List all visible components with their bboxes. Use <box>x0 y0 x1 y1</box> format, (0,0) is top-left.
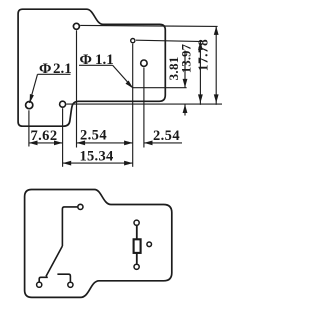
arrowhead 2.54b left <box>144 141 153 146</box>
leader underline Phi2.1 <box>38 73 71 75</box>
extension line pin junction y88 <box>133 87 187 89</box>
hole 1 (Phi2.1) <box>26 102 33 109</box>
coil terminal top <box>134 220 139 225</box>
dimension line 13.97 <box>199 41 201 105</box>
extension line hole T1 <box>76 30 78 147</box>
terminal contact 2 <box>68 282 73 287</box>
arrowhead 13.97 bottom <box>198 94 203 103</box>
leader diagonal Phi2.1 <box>30 74 38 103</box>
footprint outline (top drawing) <box>18 9 165 126</box>
contact 1 wire <box>39 277 48 281</box>
svg-text:17.78: 17.78 <box>196 39 211 71</box>
arrowhead 2.54a left <box>77 141 86 146</box>
wire common to pivot <box>62 207 77 246</box>
hole T1 (top pin) <box>73 23 79 29</box>
terminal contact 1 <box>37 282 42 287</box>
dimension line 17.78 <box>215 26 217 105</box>
arrowhead 7.62 right <box>54 141 63 146</box>
arrowhead 7.62 left <box>29 141 38 146</box>
arrowhead 2.54a right <box>124 141 133 146</box>
dimension line 7.62 <box>29 142 63 144</box>
terminal common (switch) <box>78 204 83 209</box>
coil wire top <box>136 226 138 240</box>
arrowhead 15.34 right <box>124 161 133 166</box>
extension line mid reference (hole A) <box>136 40 204 41</box>
extension line hole 2 <box>62 108 64 167</box>
extension line hole A <box>132 44 134 167</box>
dimension line 2.54 second <box>144 142 182 144</box>
dimension line 2.54 first <box>77 142 133 144</box>
coil terminal bottom <box>134 264 139 269</box>
extension line hole 1 <box>28 110 30 146</box>
svg-text:7.62: 7.62 <box>31 128 58 144</box>
coil body <box>134 239 141 253</box>
svg-text:2.54: 2.54 <box>80 128 107 144</box>
extension line top reference <box>80 25 217 26</box>
extension line hole B <box>143 68 145 148</box>
arrowhead 17.78 top <box>214 26 219 35</box>
switch arm <box>46 246 62 276</box>
svg-text:13.97: 13.97 <box>180 44 194 73</box>
arrowhead 15.34 left <box>63 161 72 166</box>
arrowhead 13.97 top <box>198 41 203 50</box>
dimension line 15.34 <box>63 162 133 164</box>
svg-text:2.54: 2.54 <box>153 128 180 144</box>
dimension line 3.81 lower stub <box>184 104 186 115</box>
schematic outline (bottom drawing) <box>25 190 172 298</box>
hole A (pin, 3.81 ref) <box>131 39 135 43</box>
svg-text:Φ1.1: Φ1.1 <box>80 52 114 68</box>
hole B (pin Phi1.1) <box>141 60 147 66</box>
hole 2 <box>60 101 66 107</box>
dimension line 3.81 pointer upper <box>184 51 186 88</box>
leader underline Phi1.1 <box>79 64 113 66</box>
contact 2 wire <box>57 274 70 282</box>
arrowhead leader Phi2.1 <box>30 94 34 103</box>
svg-text:Φ2.1: Φ2.1 <box>39 61 72 77</box>
extension line bottom reference <box>66 103 222 105</box>
leader diagonal Phi1.1 <box>113 65 132 87</box>
arrowhead 17.78 bottom <box>214 94 219 103</box>
arrowhead leader Phi1.1 <box>126 81 134 89</box>
side pin <box>147 242 152 247</box>
svg-text:15.34: 15.34 <box>79 149 113 165</box>
arrowhead stub up <box>183 104 188 113</box>
arrowhead 3.81 down <box>183 79 188 88</box>
coil wire bottom <box>136 253 138 264</box>
